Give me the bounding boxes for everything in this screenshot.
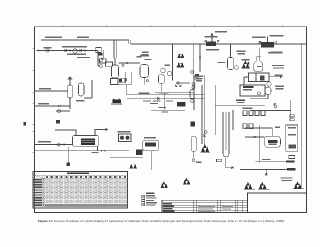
starburst baseline [242, 67, 251, 69]
label right of flask row1 [271, 51, 283, 52]
instrument circle [58, 110, 61, 113]
table row labels [34, 179, 45, 206]
wire below T-1 [69, 98, 71, 109]
label row y100 c [166, 100, 173, 101]
label under T-2 [76, 100, 85, 101]
label C.W. second [145, 59, 152, 60]
vessel V-3 [159, 75, 165, 84]
product label 1 dark [286, 160, 295, 162]
long vertical pipe x194 [193, 44, 195, 75]
legend row 5 [142, 204, 145, 206]
natural gas header line [41, 40, 129, 44]
table label column divider [42, 175, 44, 208]
small box with dark half [119, 79, 125, 83]
feed arrow [37, 50, 40, 52]
syngas machine cluster [118, 131, 132, 141]
utility label [38, 103, 49, 104]
label right of V-5 row2 [276, 88, 284, 89]
wire below S-1 [193, 151, 195, 159]
table title FLOW SUMMARY [67, 172, 89, 174]
separator vessel S-1 [191, 136, 196, 151]
starburst tuft cluster [242, 60, 250, 68]
ammonia converter R-2 U-tube [223, 112, 229, 157]
tuft pair center baseline [201, 151, 211, 153]
line y157.6 [110, 157, 143, 159]
label above stream tag [44, 47, 52, 48]
label row y103 [150, 103, 158, 104]
flue line under furnace [35, 150, 130, 152]
valve [101, 58, 103, 60]
pump blob [56, 120, 60, 124]
wire drum top [245, 128, 272, 136]
furnace right outlet stub [97, 146, 99, 151]
page number 13 [23, 122, 26, 126]
fuel gas label [38, 141, 51, 142]
vent stem [69, 80, 71, 86]
valve on riser [125, 78, 127, 80]
label C.W. [140, 55, 149, 56]
drawing border frame [35, 27, 307, 213]
drum D-1 [112, 65, 119, 78]
label right x196 row1 [196, 78, 203, 79]
relief cluster lower baseline [177, 63, 185, 67]
ammonia drum horizontal [264, 136, 280, 147]
label row y108 [243, 108, 253, 109]
instrument bubble [100, 59, 103, 62]
furnace firebox dark core [81, 139, 95, 145]
machine internals [145, 142, 156, 146]
reformer furnace box [73, 136, 99, 147]
label right of flask row3 [273, 67, 284, 68]
label under y110 [162, 111, 169, 112]
valve [126, 62, 128, 64]
firebox tube lines [82, 141, 95, 143]
exchanger row 1 [243, 111, 247, 116]
instrument bubble [100, 65, 103, 68]
storage label [262, 159, 271, 160]
valve label below S-1 [196, 162, 202, 163]
valve [69, 49, 71, 51]
wire C-101 top [230, 44, 232, 58]
recycle machine box [143, 140, 159, 150]
wire into drum D-1 [114, 58, 116, 65]
steam loop header [131, 40, 173, 81]
label NATURAL GAS [45, 37, 62, 39]
instrument circle near blob [191, 71, 194, 74]
deaerator column T-1 [68, 85, 73, 98]
label right x196 row2 [196, 80, 202, 81]
table title underline [33, 174, 128, 176]
label rows bottom right [281, 177, 293, 178]
table data smudge variation [45, 179, 128, 207]
label left of C-101 [218, 62, 226, 63]
main steam header right [173, 43, 307, 45]
product line 1 [255, 161, 295, 163]
exchanger row 2 [243, 124, 247, 129]
label below flue line [92, 152, 99, 153]
valve [84, 49, 86, 51]
flow summary table data smudges [45, 179, 128, 207]
label right of flask row2 [272, 65, 284, 66]
dark pump blob G [191, 122, 196, 127]
label feed station below [67, 53, 86, 54]
legend title [146, 193, 155, 194]
table column dividers [49, 175, 122, 208]
waste heat boiler box [249, 73, 270, 82]
exchanger E-101A [100, 59, 107, 63]
wire right of T-2 [84, 80, 92, 98]
furnace stack wire right [95, 129, 108, 136]
dark label block center [177, 102, 186, 107]
dark label rows in box [243, 86, 254, 88]
arrow marks on flue line [101, 150, 107, 152]
label block row2 [238, 53, 246, 54]
letdown station cluster [175, 82, 190, 87]
legend row 1 [142, 195, 145, 197]
tuft baselines [244, 188, 305, 191]
label right of D-2 row1 [142, 52, 149, 53]
wire [102, 50, 104, 59]
converter label box [217, 159, 222, 162]
exchanger E-101B [106, 62, 113, 66]
tower louver dark box [289, 144, 296, 148]
top-left label cluster G [193, 76, 203, 77]
instrument bubble [258, 92, 261, 95]
tuft single b [183, 178, 190, 185]
WHB internal dark core [260, 76, 265, 81]
label left of D-2 [137, 56, 142, 57]
revision strip dividers [194, 200, 243, 212]
table outer box [33, 172, 128, 209]
compressor starburst cluster [111, 98, 122, 104]
legend row 2 [142, 197, 145, 199]
CO2 absorber box [240, 85, 265, 96]
frame tick marks top [62, 25, 282, 27]
title block box [248, 193, 307, 213]
product line 2 [240, 169, 295, 171]
instrument bubble pair [192, 83, 195, 86]
label knockout drum [77, 57, 90, 58]
long vertical x215.2 [214, 85, 216, 135]
vertical x290.8 [290, 100, 292, 121]
tuft bottom 3 [294, 181, 302, 188]
legend row 3 [142, 200, 145, 202]
relief tuft cluster lower [177, 63, 184, 67]
product label 2 dark [287, 168, 296, 170]
small vessel left G [190, 90, 194, 99]
dark blob left of machine [136, 150, 143, 156]
stand below D-1 [111, 79, 119, 85]
second utility line [35, 105, 71, 107]
drum D-2 [140, 65, 149, 78]
cooler cluster [274, 103, 276, 105]
valve on utility line [58, 105, 60, 107]
valve on branch [265, 173, 267, 175]
instrument circle below S-1 [192, 159, 195, 162]
vessel C-101 [228, 58, 234, 70]
label row y100 a [143, 100, 151, 101]
tuft pair center [201, 144, 209, 152]
stream tag circle 1 [46, 49, 49, 52]
wire D-2 bottom [143, 78, 145, 85]
table totals dark row [45, 204, 127, 206]
top-left label cluster G2 [194, 78, 202, 79]
valve [65, 49, 67, 51]
circle on fuel line [57, 143, 60, 146]
parallel pipe x233 [232, 110, 234, 130]
instrument circle below [191, 100, 194, 103]
long vertical pipe x200 [199, 44, 201, 72]
short line y92.6 [155, 92, 194, 94]
label cluster above y100 [236, 99, 245, 101]
dark blob under box [98, 53, 102, 55]
wire to bubbles [98, 60, 100, 66]
parallel risers x126 x131 [126, 72, 132, 85]
header stream number marks [46, 176, 126, 178]
drum dark label [268, 140, 278, 143]
table header diagonal [33, 175, 45, 178]
instrument circle [146, 80, 148, 82]
BFW line [35, 90, 69, 92]
instrument bubble [122, 64, 124, 66]
figure caption [38, 219, 285, 224]
label C-102 [165, 65, 171, 66]
relief cluster upper baseline [177, 54, 184, 58]
line y105.3 [215, 104, 265, 106]
feed gas line [37, 50, 99, 52]
pump blob on pipe x194 [195, 74, 199, 78]
label header note [77, 37, 89, 39]
exchanger circle [161, 68, 166, 73]
elbow from exchangers [112, 85, 131, 95]
frame tick marks left [33, 48, 35, 196]
riser to y110 [164, 93, 166, 111]
valve on y98.6 [157, 97, 159, 99]
line y110.4 [151, 109, 185, 111]
valve on fuel line [63, 143, 65, 145]
instrument circle [235, 66, 239, 70]
outlet wire with arrow [269, 76, 282, 78]
label above line y95 b [159, 92, 169, 93]
compressor station K-2 [252, 35, 284, 54]
machine label above [144, 137, 156, 138]
long process line y95 [127, 94, 205, 96]
small stacked boxes [290, 115, 294, 117]
label block with leaders [237, 51, 246, 53]
long process line y98.6 [127, 98, 205, 100]
WHB internal divider [255, 73, 257, 82]
cooling tower box [286, 125, 298, 151]
vent flare triangle [67, 76, 72, 79]
line y110.5 [250, 110, 291, 112]
wire below V-3 [160, 83, 162, 91]
label in flask [257, 66, 262, 67]
circle and valve on x204 [205, 131, 208, 134]
label on drum top wire [275, 127, 280, 128]
vertical pipe x194 lower [193, 77, 195, 110]
relief tuft cluster upper [178, 54, 185, 58]
tuft pair under machines [130, 164, 137, 169]
wire WHB left [244, 77, 249, 85]
drum T-2 [79, 83, 85, 96]
branch down from line2 [265, 170, 267, 176]
label row y100 b [153, 100, 161, 101]
long vertical x202 [201, 85, 203, 144]
valve at elbow [231, 167, 233, 169]
small box below tower [289, 156, 295, 159]
tuft bottom 2 [259, 182, 267, 189]
label feed station above [62, 46, 87, 47]
tuft single a [161, 181, 168, 188]
legend row 4 [142, 202, 145, 204]
svg-text:Figure 1.1. Process flowsheet: Figure 1.1. Process flowsheet of a plant… [38, 219, 285, 224]
compressor station K-1 [205, 31, 228, 50]
interconnecting pipe [119, 62, 141, 64]
wire drum left [245, 136, 264, 138]
wire flask top [258, 47, 261, 57]
converter bottom wire [226, 158, 234, 168]
short line with circle [56, 110, 70, 112]
wire below machine [150, 151, 152, 170]
valve on pipe [199, 56, 201, 58]
vertical x259 lower [258, 125, 260, 163]
fuel gas line [35, 144, 73, 146]
tower label rows [288, 127, 296, 128]
table row lines [33, 181, 128, 207]
pump circle at WHB [267, 82, 271, 86]
label right of V-5 row1 [275, 86, 284, 87]
valve on drum left wire [254, 136, 256, 138]
methanator flask R-1 [254, 57, 263, 71]
table header row line [33, 178, 128, 180]
tuft label [242, 59, 250, 60]
vessel V-5 [265, 87, 271, 95]
tuft bottom 1 [245, 182, 253, 189]
pump P-1 circle [73, 49, 77, 53]
dark half of small box [119, 79, 122, 83]
wire V-5 bottom [250, 95, 268, 99]
long vertical x204.4 [203, 75, 205, 144]
revision strip row lines [162, 203, 248, 211]
exchanger circle [167, 71, 172, 76]
header drop double line [114, 40, 116, 58]
wire drop at x98 [97, 51, 99, 67]
label row y106 right [159, 107, 167, 108]
converter internal line [225, 112, 227, 150]
revision strip box [162, 200, 248, 212]
small box beside feed [96, 48, 102, 53]
furnace outlet pump [68, 146, 70, 162]
outlet label [275, 75, 283, 76]
revision entries dark [163, 203, 233, 212]
furnace stack wire left [55, 130, 76, 136]
BFW label [39, 88, 51, 89]
pump blob at furnace [66, 163, 70, 167]
right side long pipe [300, 45, 302, 189]
label right of D-2 row2 [142, 54, 149, 55]
valve [80, 49, 82, 51]
label above line y95 [139, 93, 150, 94]
